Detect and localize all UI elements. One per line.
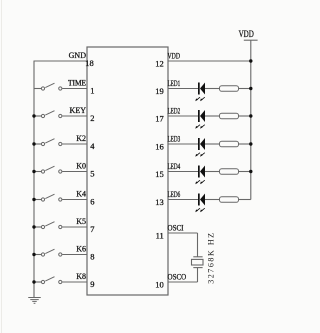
svg-text:OSCO: OSCO <box>168 272 187 282</box>
svg-text:GND: GND <box>69 51 87 60</box>
svg-text:16: 16 <box>155 141 164 151</box>
svg-text:10: 10 <box>155 279 164 289</box>
svg-text:1: 1 <box>90 86 94 96</box>
svg-text:K6: K6 <box>76 245 86 254</box>
svg-text:7: 7 <box>90 224 94 234</box>
svg-text:KEY: KEY <box>70 106 87 115</box>
svg-text:5: 5 <box>90 169 94 179</box>
svg-text:2: 2 <box>90 113 94 123</box>
svg-text:17: 17 <box>155 113 164 123</box>
svg-text:9: 9 <box>90 279 94 289</box>
svg-text:OSCI: OSCI <box>168 223 184 233</box>
svg-text:LED3: LED3 <box>168 135 181 143</box>
svg-text:VDD: VDD <box>168 52 180 61</box>
svg-text:12: 12 <box>155 58 164 68</box>
svg-text:13: 13 <box>155 197 164 207</box>
svg-text:8: 8 <box>90 252 94 262</box>
svg-text:K2: K2 <box>76 134 86 143</box>
svg-text:LED2: LED2 <box>168 107 181 115</box>
svg-text:VDD: VDD <box>239 29 254 39</box>
svg-text:15: 15 <box>155 169 164 179</box>
svg-text:TIME: TIME <box>68 78 86 87</box>
svg-text:K0: K0 <box>76 162 86 171</box>
svg-text:K5: K5 <box>76 217 86 226</box>
svg-text:11: 11 <box>156 230 164 240</box>
svg-text:LED4: LED4 <box>168 163 181 171</box>
svg-text:K4: K4 <box>76 190 86 199</box>
svg-text:32768K HZ: 32768K HZ <box>206 231 215 283</box>
svg-text:19: 19 <box>155 86 164 96</box>
svg-text:LED1: LED1 <box>168 80 181 88</box>
svg-text:LED6: LED6 <box>168 191 181 199</box>
svg-text:18: 18 <box>85 58 94 68</box>
svg-text:6: 6 <box>90 197 94 207</box>
svg-text:K8: K8 <box>76 272 86 281</box>
svg-text:4: 4 <box>90 141 95 151</box>
